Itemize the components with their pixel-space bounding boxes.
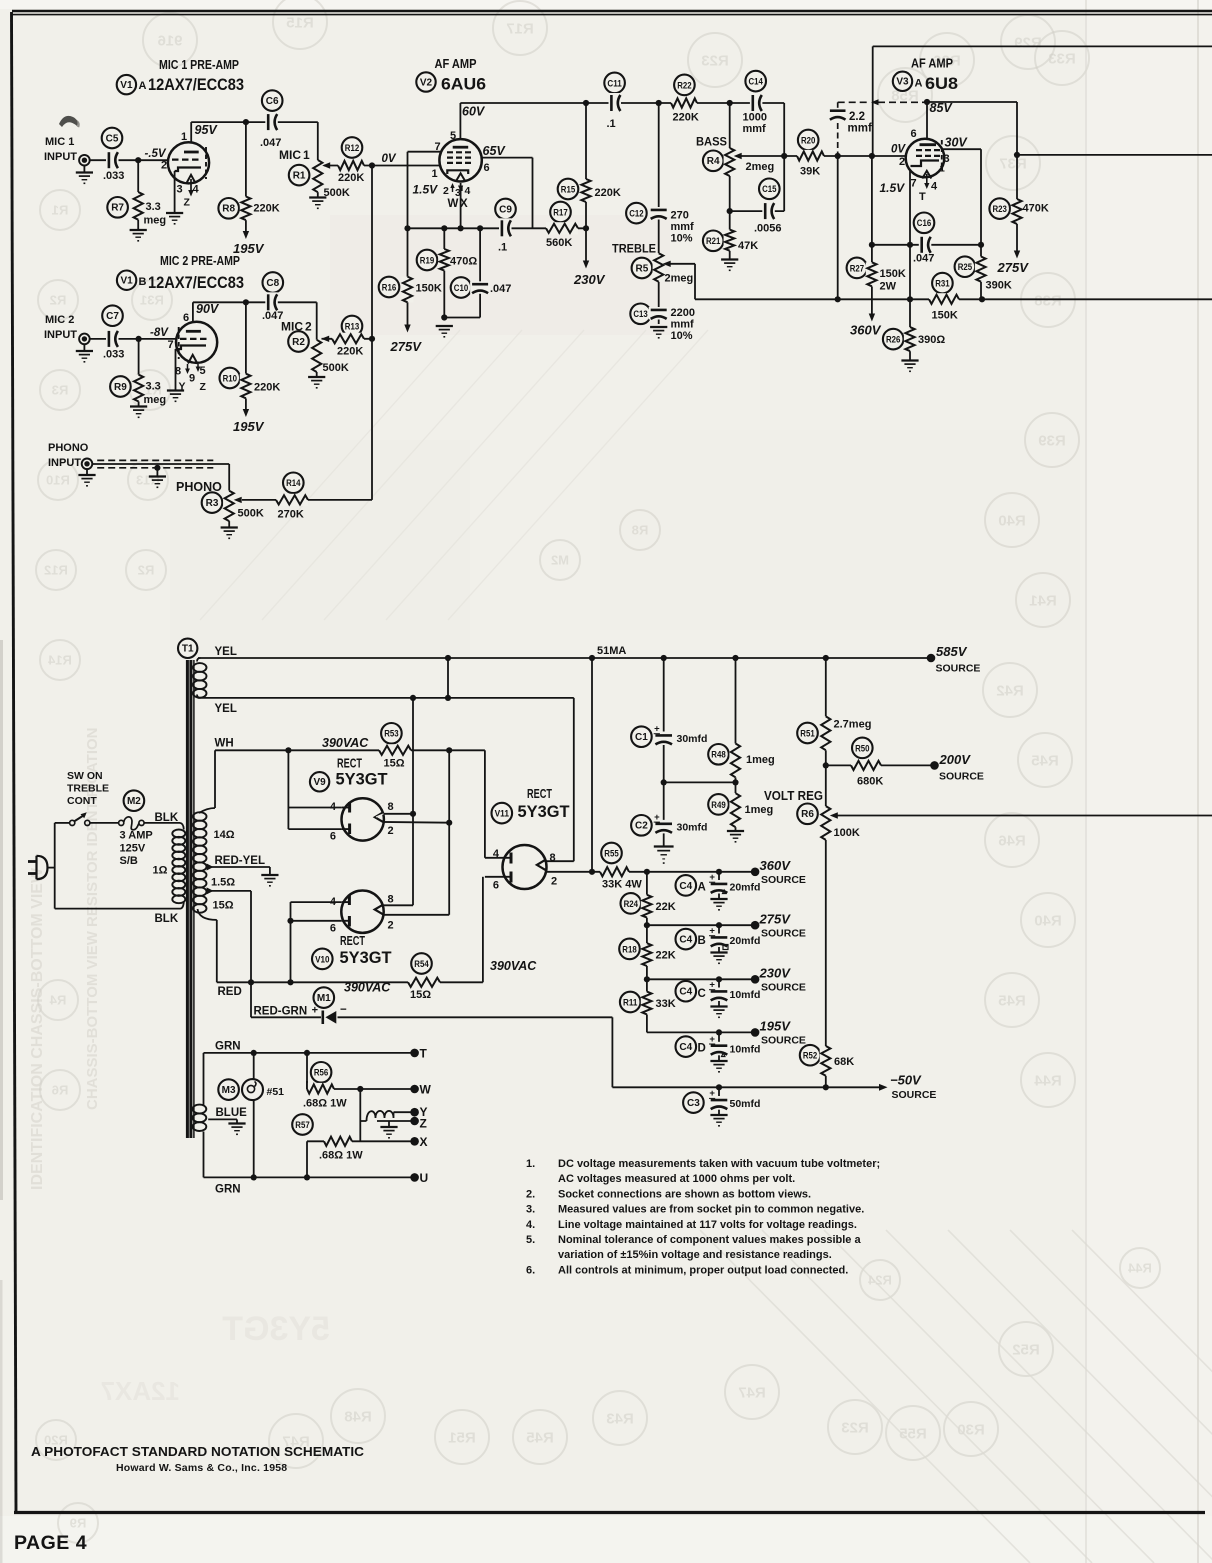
svg-text:5.: 5. [526,1234,535,1246]
resistor R53 [381,723,402,744]
svg-text:A: A [698,882,706,894]
svg-text:+: + [709,1034,715,1045]
svg-text:500K: 500K [323,362,349,374]
svg-text:12AX7/ECC83: 12AX7/ECC83 [148,75,244,94]
svg-text:R17: R17 [506,20,534,37]
junction at 735.5,658 [732,655,738,661]
capacitor C13 [630,304,651,325]
svg-text:0V: 0V [891,144,906,156]
svg-text:PHONO: PHONO [48,442,89,454]
svg-text:8: 8 [388,894,394,906]
svg-text:RED-YEL: RED-YEL [215,855,265,867]
svg-text:6: 6 [330,831,336,843]
svg-text:V11: V11 [495,809,509,819]
svg-text:X: X [420,1135,428,1149]
svg-text:INPUT: INPUT [48,457,81,469]
svg-text:MIC 2: MIC 2 [45,314,74,326]
junction at 307,1177.4 [304,1174,310,1180]
wire R27 branch [871,156,873,262]
svg-text:A: A [139,80,147,92]
transformer core [186,660,189,1138]
svg-text:C14: C14 [749,77,763,87]
junction at 646.9,925.2 [644,922,650,928]
svg-text:4: 4 [493,848,500,860]
resistor R14 [283,473,304,494]
capacitor C3 [683,1092,704,1113]
wire V2 pin7 cathode down [408,151,442,153]
capacitor C5 [102,128,123,149]
svg-text:R18: R18 [622,944,636,954]
junction at 449.2,750.3 [446,747,452,753]
svg-text:M1: M1 [317,993,331,1004]
resistor R48 [708,744,729,765]
wire V2 plate to 60V bus [459,103,461,147]
svg-text:8: 8 [550,852,556,864]
tube V3 6U8 triode [906,139,945,178]
svg-text:6.: 6. [526,1264,535,1276]
wire 200V row [826,764,935,766]
capacitor C8 [263,272,284,293]
svg-text:+: + [709,926,715,937]
capacitor C15 [759,179,780,200]
tap 15ohm [207,887,214,894]
phono shielded cable [97,459,213,461]
svg-text:#51: #51 [267,1086,285,1098]
wire C4 stems [718,872,720,880]
svg-text:3 AMP: 3 AMP [120,830,153,842]
wire divider chain R24 R18 R11 [646,872,648,895]
source 360V [751,868,760,877]
svg-text:GRN: GRN [215,1041,241,1053]
junction at 910,299.3 [907,296,913,302]
wire R9 branch [138,339,140,375]
svg-text:1: 1 [940,164,946,175]
svg-text:R26: R26 [886,335,900,345]
svg-text:7: 7 [911,178,917,190]
svg-text:R2: R2 [292,337,305,348]
svg-text:meg: meg [144,394,167,406]
terminal Z [410,1117,419,1126]
svg-text:1.5Ω: 1.5Ω [211,877,235,889]
svg-text:V9: V9 [313,777,326,788]
svg-text:3: 3 [177,184,183,196]
svg-text:Howard W. Sams & Co., Inc. 195: Howard W. Sams & Co., Inc. 1958 [116,1462,287,1474]
wire R19 C10 branch [443,228,445,249]
resistor R27 [847,258,868,279]
svg-text:195V: 195V [233,419,265,434]
resistor R25 [955,256,976,277]
svg-text:VOLT REG: VOLT REG [764,789,823,803]
wire treble wiper feedback loop [670,263,696,265]
svg-text:2: 2 [551,876,557,888]
svg-text:6: 6 [183,312,189,324]
resistor R17 [550,202,571,223]
pilot lamp #51 [242,1079,263,1100]
svg-text:.047: .047 [490,283,511,295]
svg-text:R9: R9 [70,1516,87,1531]
svg-text:150K: 150K [880,268,906,280]
junction at 719,1032.4 [716,1029,722,1035]
wire tie verticals between YEL lines [447,658,449,698]
ground Y Z jumper [380,1126,397,1128]
wire R1 wiper to R12 to 0V bus to V2 grid [323,165,442,167]
svg-text:+: + [312,1005,318,1017]
svg-text:W: W [448,198,459,210]
svg-text:R14: R14 [286,478,300,488]
svg-text:470Ω: 470Ω [450,256,477,268]
junction at 825.8,1087.3 [823,1084,829,1090]
svg-text:2meg: 2meg [665,273,694,285]
junction at 837.7,299.3 [835,296,841,302]
svg-text:4: 4 [193,184,200,196]
wire 275V row [647,924,755,926]
svg-text:SOURCE: SOURCE [936,663,981,675]
fuse 3 AMP [119,820,124,825]
svg-text:4: 4 [465,185,471,197]
tube V11 ref [492,803,513,824]
wire V3 pin3 30V to R25 [942,148,982,150]
junction at 372,165.5 [369,162,375,168]
wire transformer tap 1.5ohm [207,890,251,892]
junction at 372,338.8 [369,336,375,342]
svg-text:68K: 68K [834,1056,854,1068]
svg-text:Z: Z [184,197,191,209]
wire V10 plates [291,901,342,903]
resistor R49 [708,794,729,815]
meter M2 ref [124,790,145,811]
resistor R9 [110,376,131,397]
wire R8 branch [245,122,247,196]
svg-text:Socket connections are shown a: Socket connections are shown as bottom v… [558,1188,811,1200]
svg-text:S/B: S/B [120,855,138,867]
svg-text:R10: R10 [46,473,70,488]
svg-text:mmf: mmf [848,123,872,135]
input jack MIC1 [79,155,90,166]
junction at 825.8,658 [823,655,829,661]
wire R7 branch [137,160,139,192]
svg-text:V1: V1 [120,80,133,91]
svg-text:C: C [698,988,706,1000]
svg-text:C7: C7 [106,311,119,322]
svg-text:2: 2 [388,920,394,932]
svg-text:R45: R45 [998,992,1026,1009]
svg-text:2.2: 2.2 [849,111,865,123]
resistor R50 [852,738,873,759]
junction at 1017,154.9 [1014,152,1020,158]
junction at 444.3,317.5 [441,314,447,320]
svg-text:+: + [654,724,660,735]
svg-text:C5: C5 [106,133,119,144]
wire R56 branch [306,1053,308,1089]
svg-text:47K: 47K [738,240,758,252]
svg-text:33K 4W: 33K 4W [602,879,642,891]
voltage source 275V v2 [404,325,410,333]
shield ground [149,475,166,477]
svg-text:Measured values are from socke: Measured values are from socket pin to c… [558,1204,864,1216]
svg-text:10mfd: 10mfd [730,989,761,1001]
svg-text:R3: R3 [52,383,69,398]
svg-text:C12: C12 [629,209,643,219]
tube V10 ref [312,949,333,970]
wire R6 wiper right exit [836,815,1212,817]
wire R57 branch [306,1141,308,1177]
svg-text:275V: 275V [390,339,423,354]
terminal U [410,1173,419,1182]
resistor R24 [621,893,642,914]
wire top right corner bus [872,46,874,156]
resistor R52 [800,1045,821,1066]
wire V1B plate bus 90V to C8 and R2 [192,302,194,331]
svg-text:RED: RED [218,986,242,998]
svg-text:R17: R17 [553,207,567,217]
junction at 586,103 [583,100,589,106]
tube V1A ref [117,75,136,94]
svg-text:R44: R44 [1034,1072,1062,1089]
transformer primary winding [172,830,185,838]
junction at 448,658 [445,655,451,661]
svg-text:2: 2 [443,185,449,197]
svg-text:6AU6: 6AU6 [441,75,486,94]
resistor R18 [619,939,640,960]
svg-text:-8V: -8V [150,327,169,339]
potentiometer R1 [289,165,310,186]
svg-text:.033: .033 [103,349,124,361]
svg-text:585V: 585V [936,644,968,659]
svg-text:C4: C4 [679,935,692,946]
junction at 253.7,1052.9 [251,1050,257,1056]
svg-text:2: 2 [161,160,167,172]
svg-text:.68Ω 1W: .68Ω 1W [303,1098,347,1110]
rectifier tube V9 [342,798,384,840]
svg-text:C4: C4 [679,1042,692,1053]
wire R2 wiper to R13 [322,338,373,340]
svg-text:150K: 150K [416,283,442,295]
svg-text:BLUE: BLUE [216,1107,248,1119]
svg-text:.033: .033 [103,170,124,182]
svg-text:4: 4 [330,896,337,908]
svg-text:10%: 10% [671,233,693,245]
junction at 982,299.3 [979,296,985,302]
wire R10 branch [245,302,247,373]
svg-text:R2: R2 [138,563,155,578]
svg-text:90V: 90V [196,302,220,316]
source 275V [751,921,760,930]
ground R19 C10 [436,325,453,327]
junction at 138.6,338.9 [136,336,142,342]
svg-text:R30: R30 [957,1421,985,1438]
svg-text:1.5V: 1.5V [880,181,906,195]
junction at 646.9,979.3 [644,976,650,982]
wire MIC1 input to grid V1A [89,159,170,161]
svg-text:SOURCE: SOURCE [761,874,806,886]
capacitor C4D [676,1036,697,1057]
resistor R7 [107,197,128,218]
ground BLUE [228,1122,245,1124]
capacitor C2 [631,815,652,836]
wire GRN bottom [204,1176,415,1178]
svg-text:U: U [420,1171,429,1185]
svg-text:C11: C11 [607,78,621,88]
svg-text:R50: R50 [855,743,869,753]
svg-text:R23: R23 [701,52,729,69]
svg-text:TREBLE: TREBLE [67,783,109,795]
svg-text:22K: 22K [656,950,676,962]
svg-text:200V: 200V [939,752,972,767]
svg-text:1.5V: 1.5V [413,183,439,197]
resistor R16 [379,277,400,298]
svg-text:65V: 65V [483,144,507,158]
resistor R56 [311,1062,332,1083]
svg-text:R7: R7 [111,203,124,214]
wire V9 cathode leads [380,813,414,815]
svg-text:C4: C4 [679,987,692,998]
svg-text:R53: R53 [384,729,398,739]
svg-text:R54: R54 [414,959,428,969]
svg-text:2.: 2. [526,1188,535,1200]
svg-text:6: 6 [493,880,499,892]
svg-text:R4: R4 [707,156,720,167]
junction at 290.5,920.8 [287,918,293,924]
resistor R31 [932,273,953,294]
svg-text:12AX7/ECC83: 12AX7/ECC83 [148,273,244,292]
svg-text:A PHOTOFACT STANDARD NOTATION: A PHOTOFACT STANDARD NOTATION SCHEMATIC [31,1445,364,1459]
wire GRN top [204,1052,415,1054]
svg-text:100K: 100K [834,827,860,839]
junction at 480.1,228.3 [477,225,483,231]
diode M1 [314,987,335,1008]
rectifier tube V10 [341,891,383,933]
AC plug [28,860,37,863]
svg-text:8: 8 [388,801,394,813]
svg-text:5Y3GT: 5Y3GT [340,949,392,967]
svg-text:4.: 4. [526,1219,535,1231]
wire WH 390VAC line [215,749,485,751]
svg-text:95V: 95V [195,123,219,137]
svg-text:390K: 390K [986,280,1012,292]
source 200V [930,761,939,770]
svg-text:V1: V1 [120,276,133,287]
wire V2 cathode node horizontal [408,227,587,229]
junction at 981,244.8 [978,242,984,248]
junction at 729.7,103 [727,100,733,106]
capacitor C4B [676,929,697,950]
potentiometer R5 [632,258,653,279]
wire V2 pin6 screen to C9 node [480,157,533,159]
svg-text:20mfd: 20mfd [730,882,761,894]
svg-text:MIC 2 PRE-AMP: MIC 2 PRE-AMP [160,253,240,268]
svg-text:R2: R2 [50,293,67,308]
svg-text:AF AMP: AF AMP [911,56,953,71]
svg-text:R8: R8 [632,523,649,538]
wire R3 wiper to R14 to 0V bus [242,499,372,501]
svg-text:22K: 22K [656,901,676,913]
source 585V [927,654,936,663]
svg-text:GRN: GRN [215,1184,241,1196]
svg-text:R24: R24 [624,899,638,909]
svg-text:R3: R3 [206,498,219,509]
junction at 719,979.3 [716,976,722,982]
svg-text:4: 4 [330,801,337,813]
svg-text:5Y3GT: 5Y3GT [222,1310,330,1348]
svg-text:R49: R49 [711,800,725,810]
potentiometer R6 [797,804,818,825]
svg-text:1: 1 [303,148,310,162]
svg-text:B: B [139,276,147,288]
junction at 871.9,156 [869,153,875,159]
source -50V [879,1084,888,1091]
wire 2.2mmf dashed [838,101,869,103]
svg-text:R10: R10 [223,373,237,383]
wire W to X tie [359,1089,361,1141]
svg-text:+: + [709,980,715,991]
svg-text:B: B [698,935,706,947]
svg-text:R45: R45 [526,1429,554,1446]
svg-text:SOURCE: SOURCE [761,928,806,940]
svg-text:DC voltage measurements taken: DC voltage measurements taken with vacuu… [558,1158,880,1170]
voltage source 230V [583,261,589,269]
svg-text:R45: R45 [1031,752,1059,769]
junction at 413,697.9 [410,695,416,701]
junction at 307,1052.9 [304,1050,310,1056]
svg-text:5: 5 [450,130,456,142]
transformer secondary winding [193,812,206,821]
wire MIC2 input to grid V1B [89,338,178,340]
svg-text:R47: R47 [738,1384,766,1401]
resistor R8 [218,198,239,219]
svg-text:220K: 220K [254,382,280,394]
tube V1A [168,142,209,183]
svg-text:R23: R23 [993,204,1007,214]
junction at 658.7,103 [656,100,662,106]
resistor R15 [558,179,579,200]
transformer T1 ref [178,639,197,658]
svg-text:AC voltages measured at 1000 o: AC voltages measured at 1000 ohms per vo… [558,1173,795,1185]
wire R51 R6 R52 branch [825,658,827,716]
wire 195V row [647,1031,755,1033]
svg-text:60V: 60V [462,105,486,119]
svg-text:390VAC: 390VAC [490,959,537,973]
svg-text:SW ON: SW ON [67,770,103,782]
svg-text:TREBLE: TREBLE [612,242,656,256]
svg-text:variation of ±15%in voltage an: variation of ±15%in voltage and resistan… [558,1249,832,1261]
svg-text:MIC 1: MIC 1 [45,136,74,148]
svg-text:PAGE 4: PAGE 4 [14,1532,87,1554]
svg-text:R39: R39 [1038,432,1066,449]
junction at 825.8,765.4 [823,762,829,768]
junction at 837.7,156 [835,153,841,159]
input jack PHONO [82,459,93,470]
svg-text:YEL: YEL [215,703,237,715]
svg-text:390VAC: 390VAC [322,736,369,750]
tube V2 ref [416,72,435,91]
svg-text:-.5V: -.5V [145,148,167,160]
svg-text:R14: R14 [47,653,72,668]
svg-text:R8: R8 [222,204,235,215]
svg-text:230V: 230V [573,272,606,287]
svg-text:RECT: RECT [337,757,362,771]
svg-text:T1: T1 [182,644,194,655]
capacitor C7 [102,305,123,326]
junction at 245.9,302.3 [243,299,249,305]
tube V1B [176,322,217,363]
svg-text:R46: R46 [998,832,1026,849]
svg-text:4: 4 [931,181,938,193]
svg-text:R20: R20 [801,135,815,145]
svg-text:R31: R31 [140,293,164,308]
junction at 448,697.9 [445,695,451,701]
svg-text:1: 1 [181,131,187,143]
junction at 592,658 [589,655,595,661]
